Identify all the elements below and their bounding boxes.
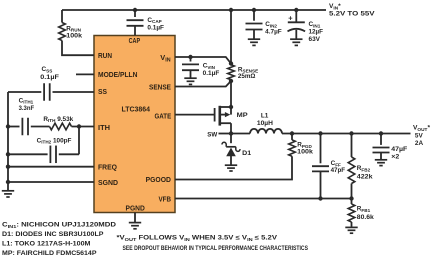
svg-text:MODE/PLLN: MODE/PLLN: [98, 70, 138, 79]
wire SGND pin: [8, 181, 94, 183]
pin label SENSE: [149, 82, 171, 91]
ground D1: [225, 165, 237, 171]
svg-text:12µF: 12µF: [309, 29, 324, 36]
svg-text:100k: 100k: [66, 33, 82, 40]
node junction CIN1 top: [294, 8, 298, 12]
resistor RFB1 80.6k: [348, 199, 374, 227]
note D1 part number: [2, 231, 104, 238]
svg-text:L1: TOKO 1217AS-H-100M: L1: TOKO 1217AS-H-100M: [2, 241, 91, 248]
wire RRUN top stub: [61, 10, 63, 23]
svg-text:MP: FAIRCHILD FDMC5614P: MP: FAIRCHILD FDMC5614P: [2, 250, 97, 257]
node junction CCAP top: [133, 8, 137, 12]
wire MODE/PLLN stub: [76, 73, 94, 75]
note L1 part number: [2, 241, 91, 248]
pin label SGND: [98, 178, 119, 187]
svg-text:10µH: 10µH: [257, 120, 273, 127]
capacitor CIN2 4.7uF: [246, 21, 282, 36]
svg-text:SGND: SGND: [98, 178, 119, 187]
pin label VIN: [160, 53, 170, 63]
diode D1 schottky: [222, 142, 252, 157]
svg-text:ITH: ITH: [98, 123, 110, 132]
node junction rail-CITH2: [6, 152, 10, 156]
node junction rail-SGND: [6, 180, 10, 184]
ground left rail: [2, 191, 14, 197]
svg-text:5.2V TO 55V: 5.2V TO 55V: [329, 10, 375, 17]
svg-text:0.1µF: 0.1µF: [40, 74, 59, 81]
node junction CVIN tap: [188, 55, 192, 59]
wire PGOOD pin: [175, 156, 292, 179]
svg-text:100k: 100k: [297, 148, 313, 155]
resistor RSENSE 25mOhm: [228, 65, 258, 80]
wire CIN1 stub: [295, 10, 297, 22]
footnote VOUT follows VIN: [117, 235, 279, 242]
node SW junction: [229, 131, 233, 135]
note MP part number: [2, 250, 97, 257]
wire SENSE pin: [175, 81, 231, 87]
wire CAP pin stub: [134, 26, 136, 36]
svg-text:25mΩ: 25mΩ: [238, 73, 256, 80]
pin label GATE: [155, 112, 172, 121]
op-amp U1 LTC3864 IC body: [94, 36, 175, 213]
wire CIN2 ground stub: [253, 30, 255, 39]
pin label CAP: [129, 36, 141, 45]
svg-text:PGOOD: PGOOD: [146, 175, 172, 184]
node label SW: [207, 131, 218, 138]
svg-text:LTC3864: LTC3864: [122, 107, 151, 114]
wire CFF top stub: [320, 134, 322, 164]
svg-text:SENSE: SENSE: [149, 82, 171, 91]
capacitor CITH2 100pF: [37, 137, 72, 163]
wire SW to D1: [230, 134, 232, 144]
pin label PGOOD: [146, 175, 172, 184]
wire SS right segment: [53, 91, 95, 93]
node junction RFB2 top: [349, 131, 353, 135]
svg-text:5V: 5V: [415, 133, 424, 140]
wire COUT stub: [380, 134, 382, 145]
wire VIN pin: [175, 57, 231, 64]
svg-text:+: +: [288, 14, 293, 23]
wire source column: [230, 80, 232, 115]
resistor RRUN 100k: [59, 23, 83, 41]
inductor L1 10uH: [250, 112, 282, 133]
ground RFB1: [345, 227, 357, 233]
svg-text:422k: 422k: [357, 174, 373, 181]
wire VFB pin: [175, 198, 352, 200]
capacitor CSS 0.1uF: [40, 66, 59, 101]
svg-text:L1: L1: [261, 112, 269, 119]
node junction ITH-CITH2 branch: [77, 124, 81, 128]
svg-text:CIN1​: NICHICON UPJ1J120MDD: CIN1​: NICHICON UPJ1J120MDD: [2, 222, 117, 229]
wire PGND stub: [134, 213, 136, 223]
transistor MP PMOS: [215, 106, 249, 126]
svg-text:FREQ: FREQ: [98, 163, 117, 172]
svg-text:VFB: VFB: [159, 194, 172, 203]
svg-text:63V: 63V: [309, 36, 321, 43]
node junction rail-ITH: [6, 124, 10, 128]
capacitor CFF 47pF: [312, 160, 345, 174]
svg-text:RUN: RUN: [98, 51, 112, 60]
svg-text:47pF: 47pF: [331, 167, 346, 174]
svg-text:SEE DROPOUT BEHAVIOR IN TYPICA: SEE DROPOUT BEHAVIOR IN TYPICAL PERFORMA…: [123, 245, 309, 252]
svg-text:MP: MP: [237, 112, 249, 119]
node junction VFB divider: [349, 196, 353, 200]
wire COUT ground stub: [380, 153, 382, 160]
svg-text:×2: ×2: [391, 154, 399, 161]
node junction RSENSE top: [229, 61, 233, 65]
svg-text:SW: SW: [207, 131, 218, 138]
capacitor CCAP 0.1uF: [127, 17, 165, 32]
wire SW label stub: [219, 133, 232, 135]
node junction rail-FREQ: [6, 165, 10, 169]
capacitor COUT 47uF x2: [373, 146, 408, 161]
capacitor CIN1 12uF 63V polarized: [288, 14, 324, 44]
node label VOUT 5V 2A: [413, 125, 430, 148]
wire CVIN stub: [190, 57, 192, 62]
node junction RSENSE bottom: [229, 79, 233, 83]
wire CITH2 branch vertical: [78, 127, 80, 155]
node junction COUT top: [379, 131, 383, 135]
wire CCAP stub top: [134, 10, 136, 17]
resistor RFB2 422k: [348, 134, 373, 199]
wire CIN1 ground stub: [295, 30, 297, 39]
ground PGND: [129, 223, 141, 229]
pin label PGND: [126, 203, 146, 212]
wire D1 to ground: [230, 156, 232, 165]
capacitor CITH1 3.3nF: [19, 97, 35, 135]
wire GATE pin: [175, 114, 215, 116]
wire FREQ pin: [8, 166, 94, 168]
pin label RUN: [98, 51, 112, 60]
node label VIN 5.2V TO 55V: [329, 3, 375, 17]
svg-text:RITH​ 9.53k: RITH​ 9.53k: [43, 116, 73, 123]
pin label MODE/PLLN: [98, 70, 138, 79]
ground CIN1: [290, 39, 302, 45]
svg-text:2A: 2A: [415, 140, 424, 147]
svg-text:3.3nF: 3.3nF: [19, 105, 35, 112]
wire RUN pin: [62, 41, 94, 56]
wire SS left segment: [8, 91, 41, 93]
svg-text:D1: DIODES INC SBR3U100LP: D1: DIODES INC SBR3U100LP: [2, 231, 104, 238]
pin label FREQ: [98, 163, 117, 172]
svg-text:47µF: 47µF: [391, 146, 407, 153]
wire SW to L1: [231, 133, 250, 135]
wire CITH2 right segment: [59, 153, 79, 155]
node junction MP source-body: [229, 105, 233, 109]
wire RSENSE column upper: [230, 10, 232, 64]
wire ITH left segment: [8, 126, 20, 128]
wire CFF bottom stub: [320, 171, 322, 198]
wire top VIN rail: [62, 9, 326, 11]
node junction CIN2 top: [252, 8, 256, 12]
wire ITH right segment: [72, 126, 95, 128]
pin label SS: [98, 87, 107, 96]
svg-text:80.6k: 80.6k: [357, 214, 374, 221]
ground CIN2: [248, 39, 260, 45]
node junction RSENSE column top: [229, 8, 233, 12]
wire MP drain to SW: [230, 123, 232, 133]
pin label VFB: [159, 194, 172, 203]
wire CVIN ground stub: [190, 70, 192, 78]
node junction CFF-VFB: [318, 196, 322, 200]
node junction RPGD top: [290, 131, 294, 135]
wire ITH middle segment: [31, 126, 50, 128]
wire VOUT rail: [282, 133, 411, 135]
svg-text:CAP: CAP: [129, 36, 141, 45]
svg-text:*VOUT​ FOLLOWS VIN​ WHEN 3.5V: *VOUT​ FOLLOWS VIN​ WHEN 3.5V ≤ VIN​ ≤ 5…: [117, 235, 279, 242]
svg-text:PGND: PGND: [126, 203, 146, 212]
svg-text:0.1µF: 0.1µF: [203, 70, 220, 77]
note CIN1 part number: [2, 222, 117, 229]
svg-text:GATE: GATE: [155, 112, 172, 121]
svg-text:4.7µF: 4.7µF: [265, 29, 282, 36]
ground COUT: [375, 160, 387, 166]
svg-text:SS: SS: [98, 87, 107, 96]
resistor RITH 9.53k: [43, 116, 73, 130]
resistor RPGD 100k: [289, 134, 314, 157]
svg-text:0.1µF: 0.1µF: [147, 24, 164, 31]
pin label ITH: [98, 123, 110, 132]
wire CITH2 left segment: [8, 153, 48, 155]
footnote see dropout behavior: [123, 245, 309, 252]
ground CVIN: [184, 78, 196, 84]
node junction CFF top: [318, 131, 322, 135]
wire CIN2 stub: [253, 10, 255, 21]
capacitor CVIN 0.1uF: [182, 62, 219, 77]
svg-text:D1: D1: [242, 150, 251, 157]
wire left ground rail: [7, 92, 9, 190]
